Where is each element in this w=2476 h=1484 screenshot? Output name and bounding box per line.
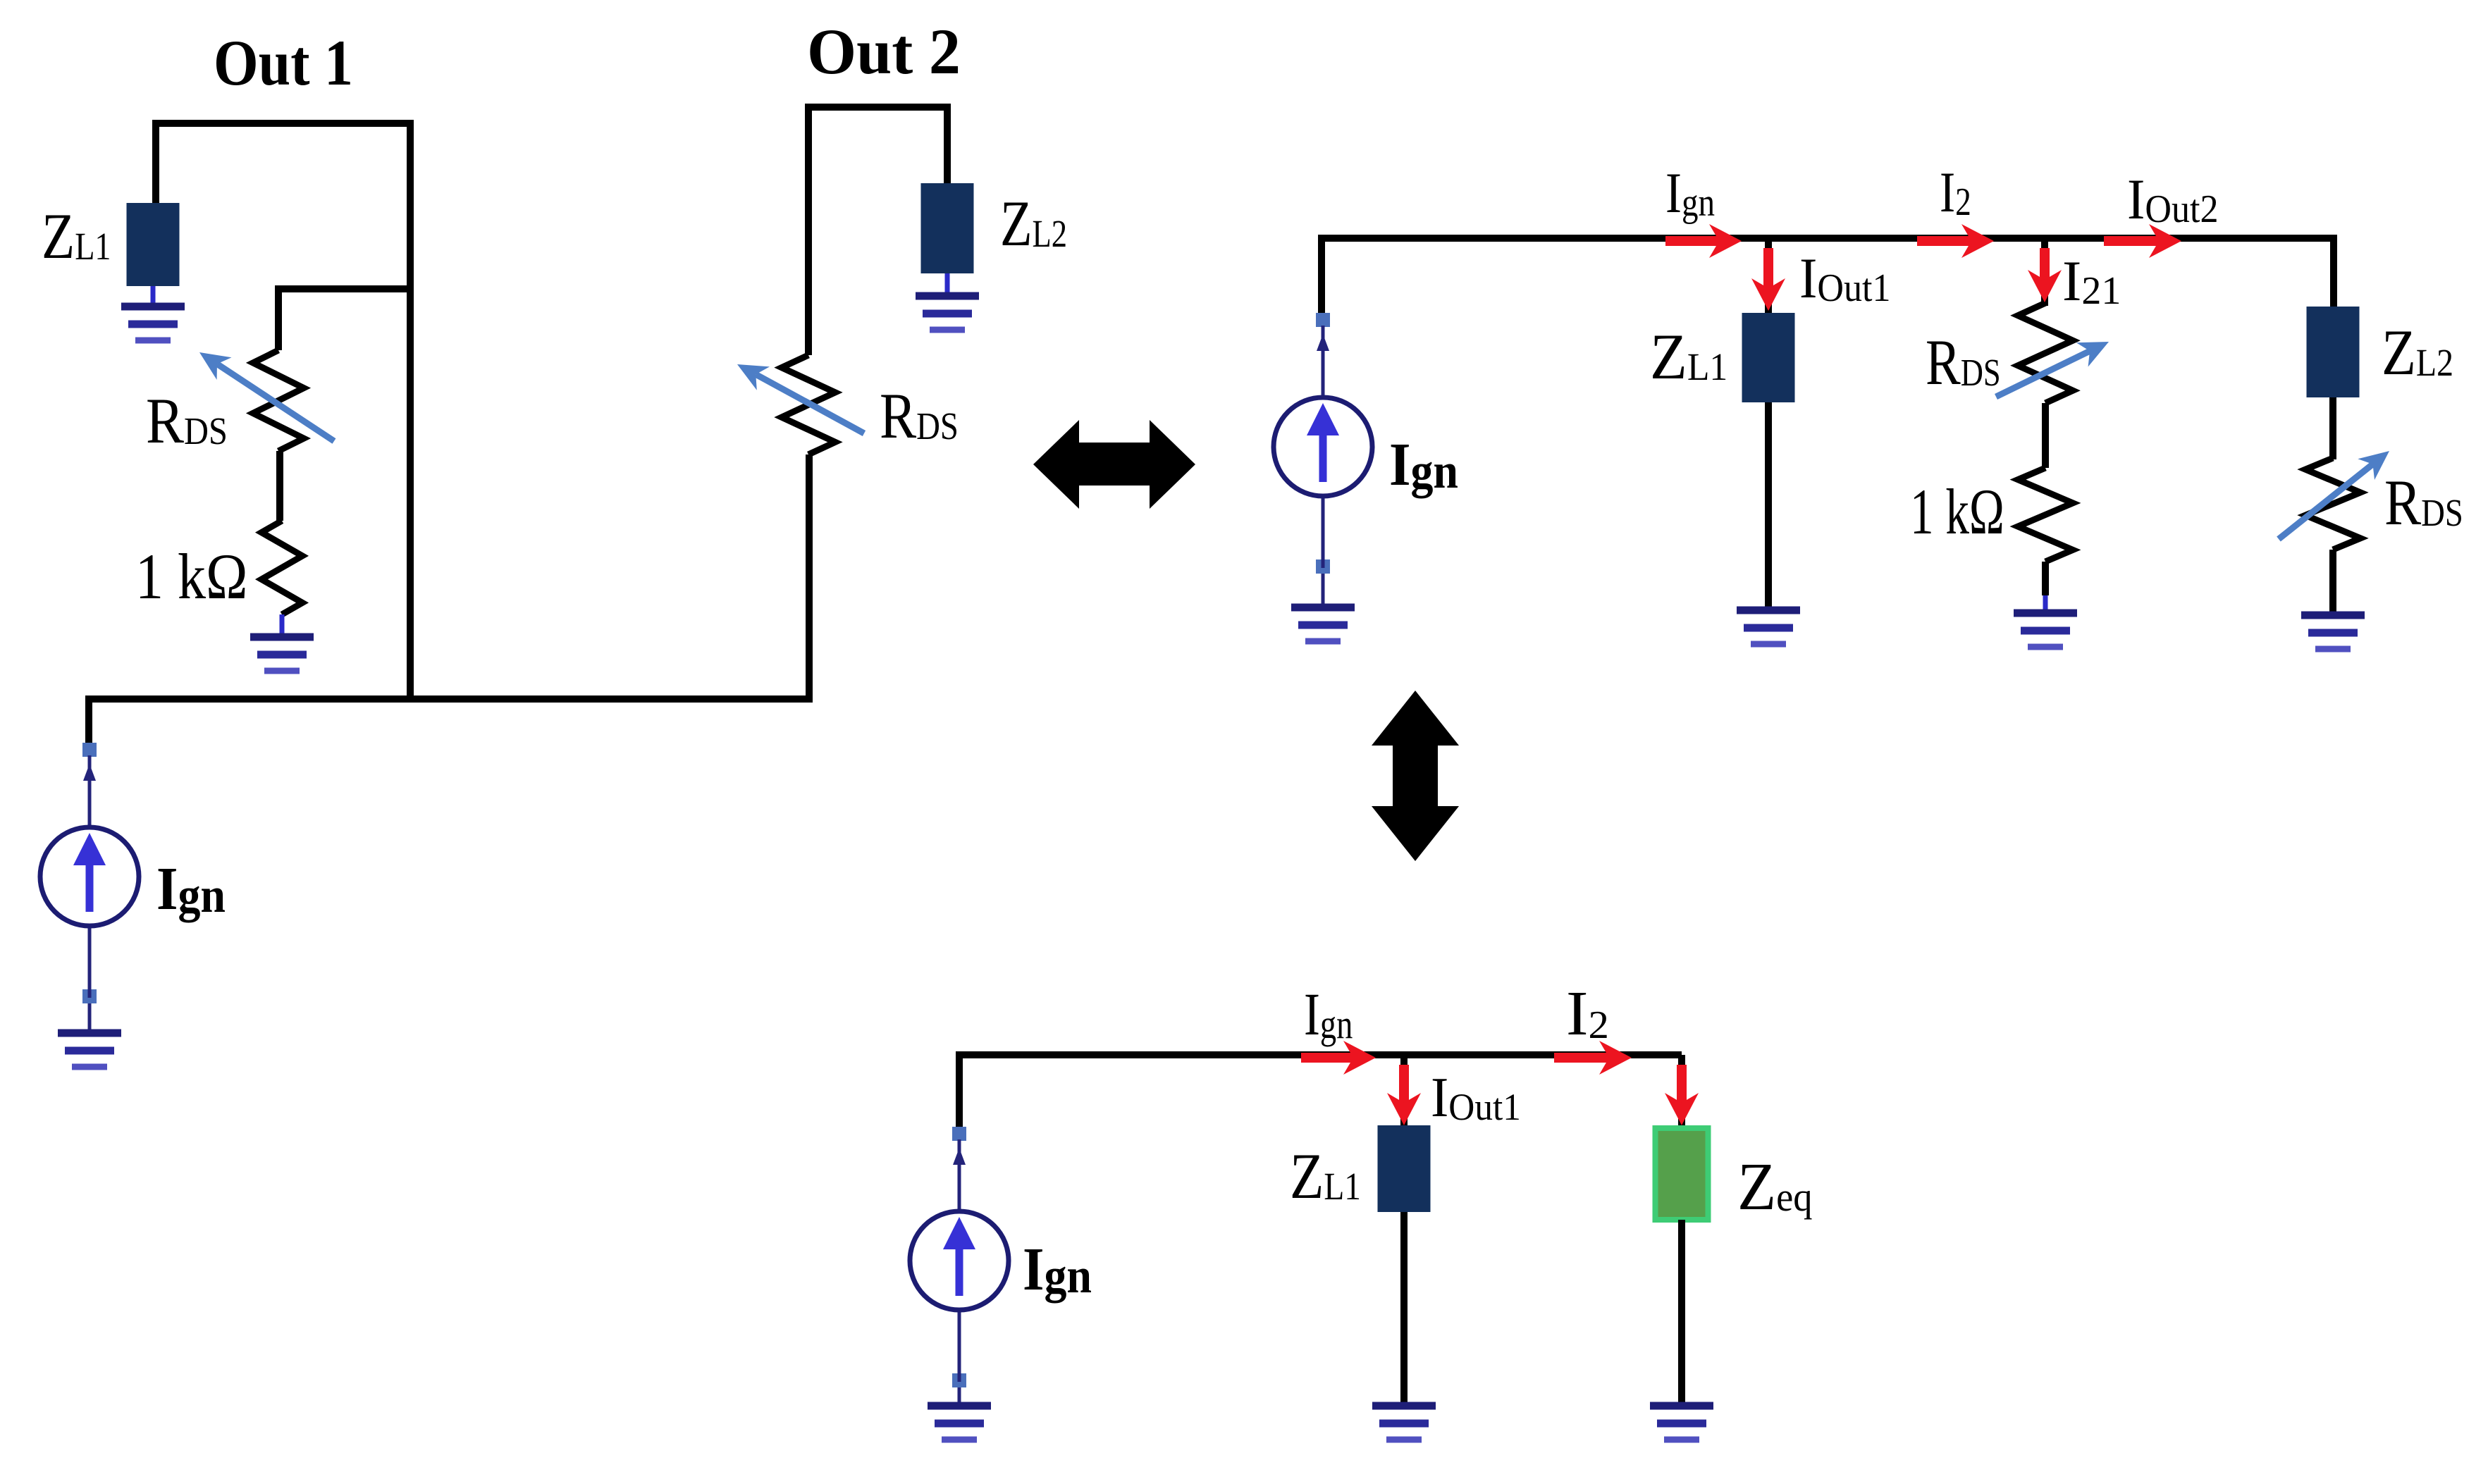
svg-text:ZL1: ZL1 — [1650, 321, 1727, 393]
svg-text:ZL1: ZL1 — [1290, 1141, 1361, 1213]
svg-text:IOut2: IOut2 — [2127, 168, 2219, 232]
svg-text:Ign: Ign — [156, 854, 226, 923]
svg-text:Ign: Ign — [1389, 430, 1458, 499]
svg-text:Ign: Ign — [1304, 981, 1353, 1048]
svg-text:ZL1: ZL1 — [42, 201, 111, 273]
svg-text:Zeq: Zeq — [1737, 1150, 1813, 1225]
svg-text:RDS: RDS — [2384, 467, 2463, 538]
svg-text:RDS: RDS — [1926, 327, 2001, 399]
svg-text:I2: I2 — [1940, 161, 1971, 225]
svg-text:Ign: Ign — [1665, 162, 1715, 225]
svg-text:Ign: Ign — [1023, 1235, 1092, 1304]
svg-text:1 kΩ: 1 kΩ — [1910, 476, 2004, 548]
svg-text:1 kΩ: 1 kΩ — [135, 540, 248, 612]
svg-text:ZL2: ZL2 — [2382, 316, 2453, 388]
svg-text:Out 1: Out 1 — [214, 27, 353, 99]
svg-text:I2: I2 — [1566, 978, 1609, 1048]
svg-text:IOut1: IOut1 — [1431, 1065, 1521, 1128]
svg-text:Out 2: Out 2 — [807, 16, 961, 87]
svg-text:RDS: RDS — [880, 381, 959, 452]
svg-text:RDS: RDS — [146, 385, 228, 457]
svg-text:IOut1: IOut1 — [1799, 247, 1891, 311]
svg-text:ZL2: ZL2 — [1000, 188, 1067, 260]
svg-text:I21: I21 — [2062, 249, 2121, 313]
